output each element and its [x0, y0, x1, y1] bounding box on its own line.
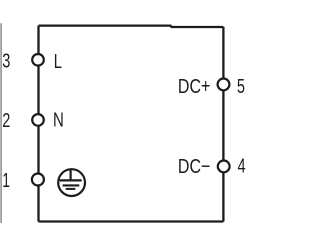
wire cropped left bus	[0, 23, 2, 223]
wire box bottom edge	[39, 220, 224, 222]
svg-text:2: 2	[2, 108, 10, 131]
svg-text:L: L	[54, 49, 62, 72]
terminal circle 5 DC+	[218, 79, 230, 91]
svg-text:3: 3	[2, 49, 10, 72]
terminal circle 3 L	[32, 54, 44, 66]
svg-text:5: 5	[237, 74, 245, 97]
terminal circle 1 PE	[32, 174, 44, 186]
svg-text:4: 4	[238, 154, 246, 177]
svg-text:1: 1	[2, 168, 10, 191]
wire box right edge	[222, 27, 224, 222]
wire box left edge	[37, 26, 39, 222]
terminal circle 4 DC-	[218, 161, 230, 173]
wire box top edge	[39, 26, 224, 27]
svg-text:DC+: DC+	[178, 74, 210, 97]
svg-text:N: N	[53, 108, 64, 131]
svg-text:DC−: DC−	[178, 154, 210, 177]
terminal circle 2 N	[32, 114, 44, 126]
protective earth symbol	[58, 169, 85, 196]
